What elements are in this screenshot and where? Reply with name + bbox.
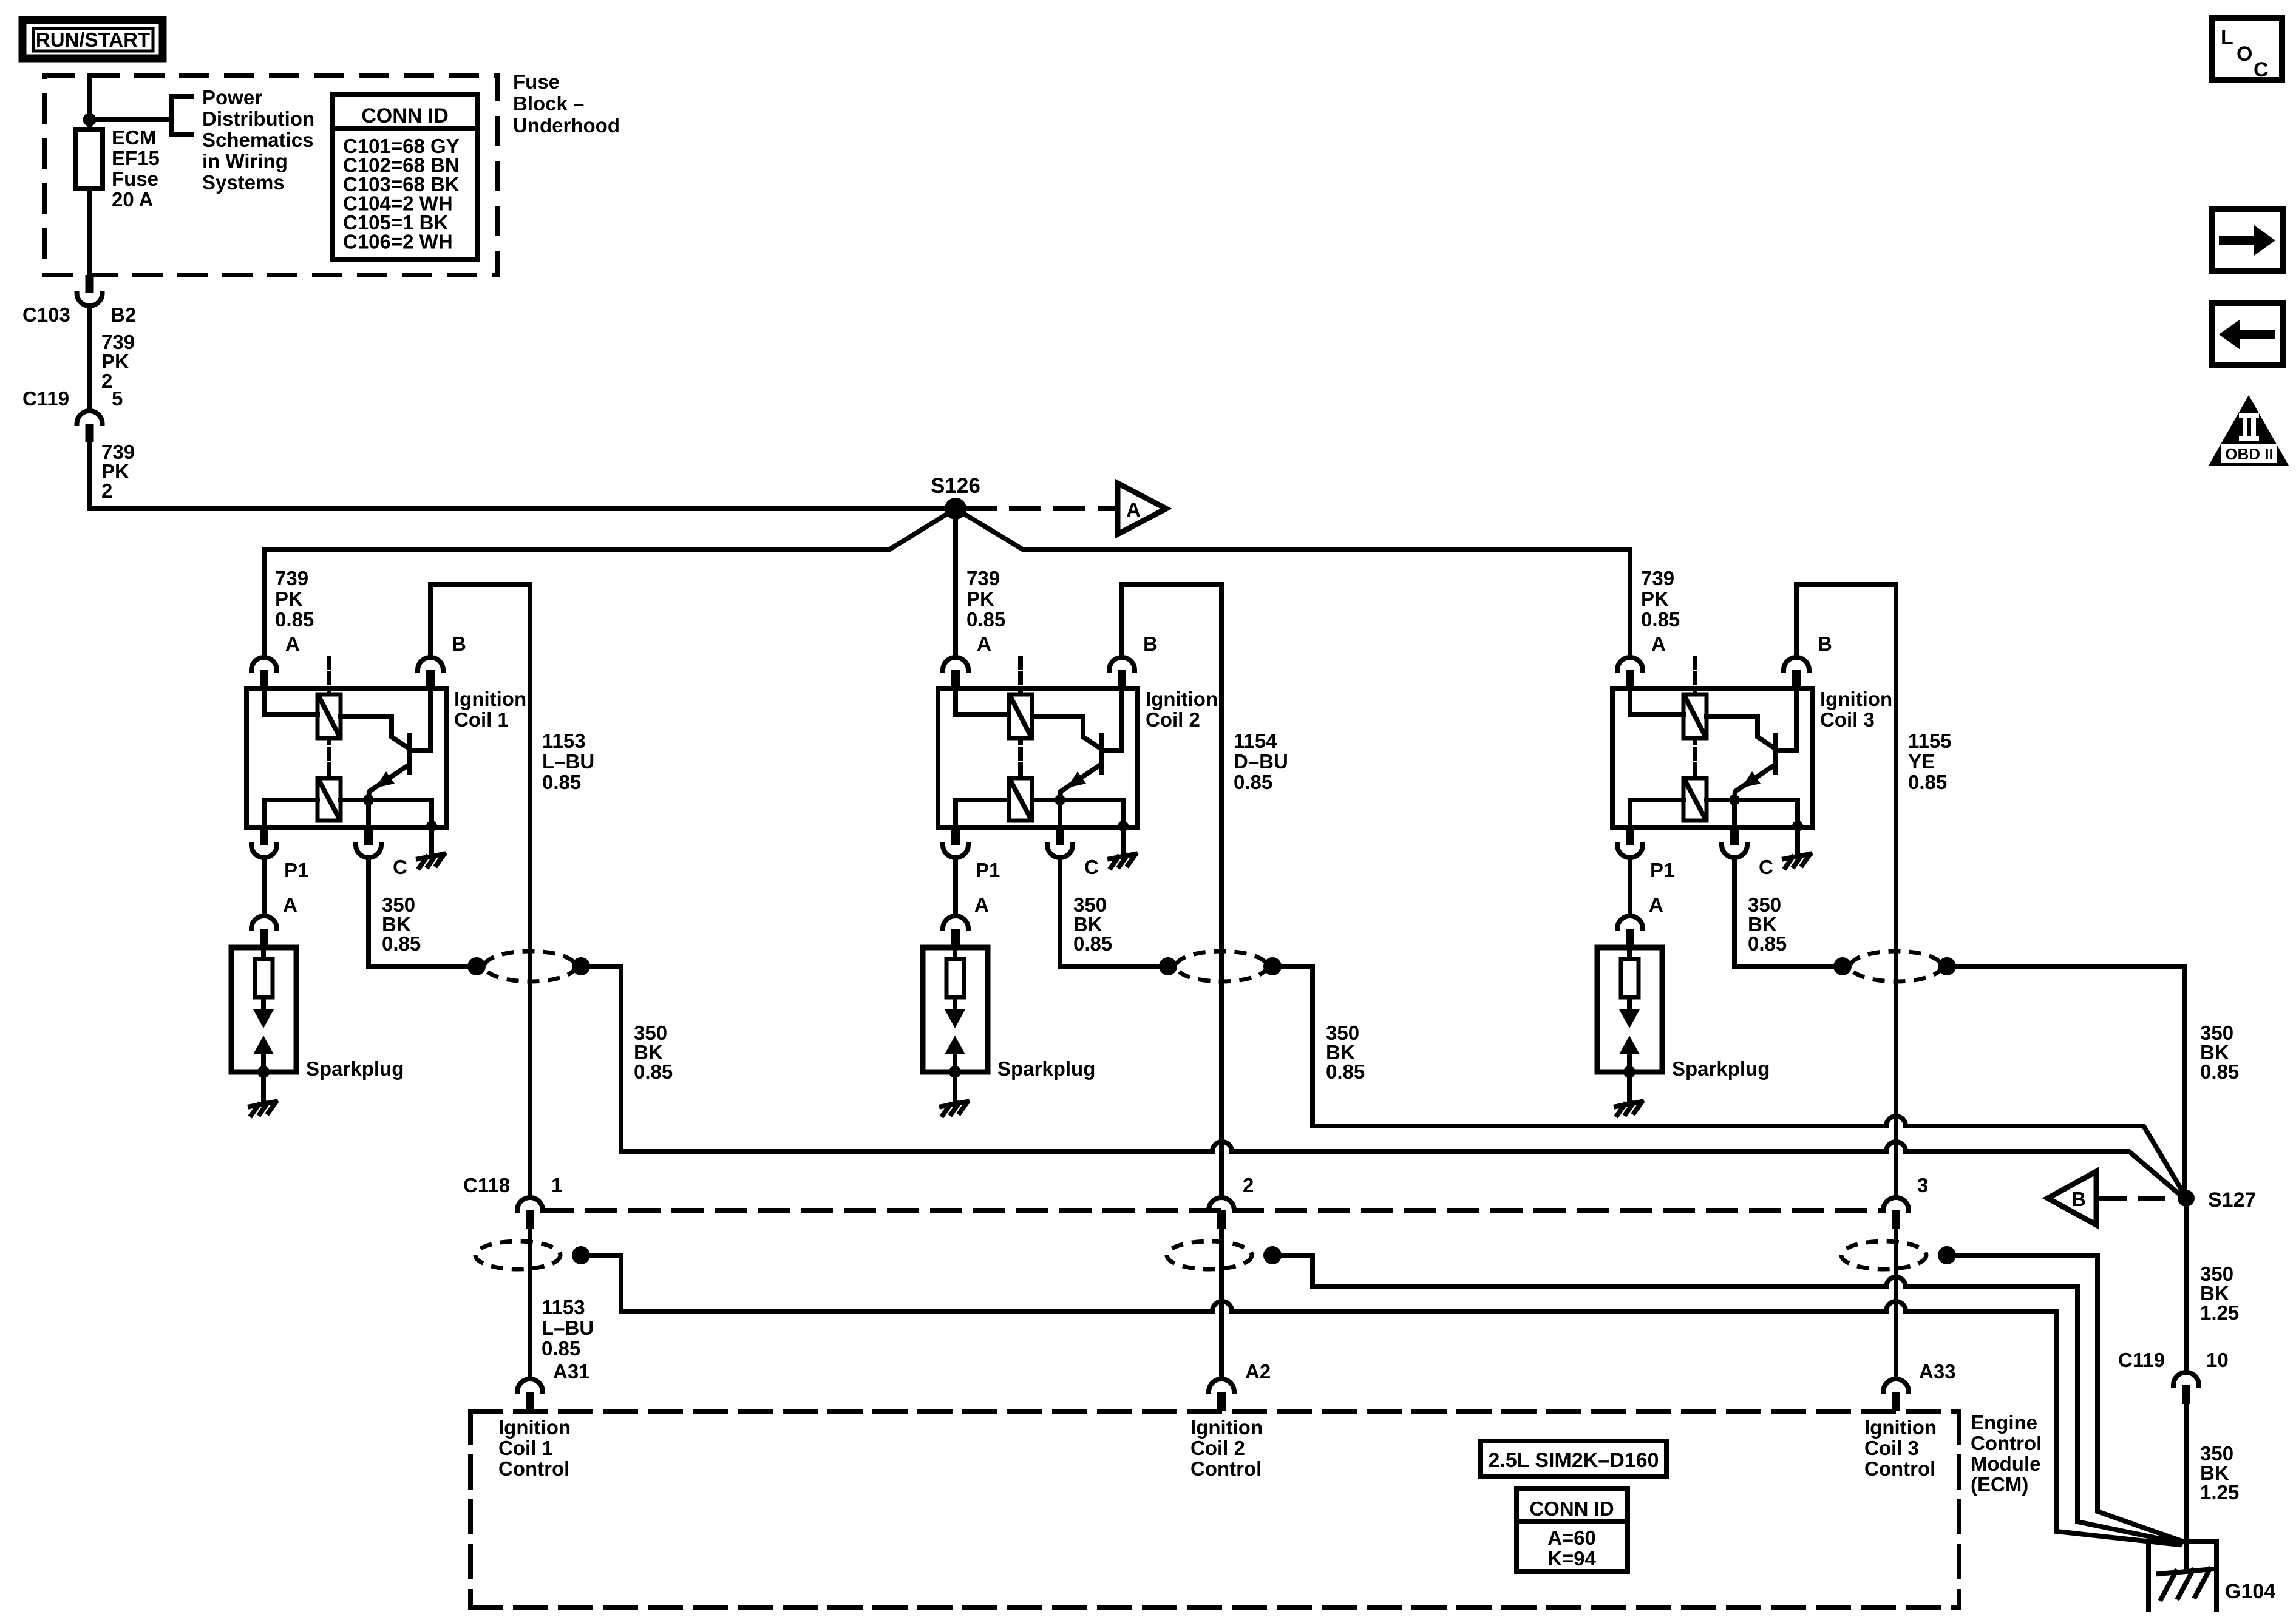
svg-text:Fuse: Fuse xyxy=(513,70,560,93)
svg-text:G104: G104 xyxy=(2225,1580,2275,1603)
svg-text:B: B xyxy=(1818,632,1832,655)
svg-text:CONN ID: CONN ID xyxy=(361,104,449,127)
svg-text:0.85: 0.85 xyxy=(382,932,421,955)
connector terminal P1 (coil 2) xyxy=(951,827,960,845)
svg-text:3: 3 xyxy=(1917,1174,1928,1196)
svg-text:B: B xyxy=(452,632,466,655)
control wire loop to terminal B (coil 1) xyxy=(430,585,530,1198)
svg-text:A: A xyxy=(1651,632,1666,655)
coil 3 internal wiring xyxy=(1630,688,1683,714)
svg-text:10: 10 xyxy=(2206,1349,2229,1371)
wire below C118 pin 1 xyxy=(528,1229,532,1379)
svg-text:PK: PK xyxy=(275,588,303,610)
node: emitter to secondary return (coil 3) xyxy=(1729,795,1740,805)
ground G104 frame xyxy=(2148,1541,2216,1609)
coil 3 primary winding xyxy=(1683,694,1707,738)
svg-text:Sparkplug: Sparkplug xyxy=(306,1057,404,1080)
shield drain node right (coil 3) xyxy=(1938,957,1956,975)
coil 2 case ground stub xyxy=(1121,828,1126,852)
svg-text:739: 739 xyxy=(275,567,308,589)
coil 2 internal wiring xyxy=(956,688,1009,714)
svg-text:PK: PK xyxy=(1641,588,1669,610)
wire 350 BK 1.25 S127 to C119 pin 10 xyxy=(2184,1207,2189,1372)
ECM connector terminal arc (pin 1) xyxy=(517,1379,543,1392)
node: coil 1 case ground junction xyxy=(426,821,437,832)
svg-text:0.85: 0.85 xyxy=(966,608,1005,631)
svg-text:D–BU: D–BU xyxy=(1234,750,1288,773)
off-page arrow A xyxy=(1118,483,1166,534)
svg-text:Control: Control xyxy=(498,1457,569,1480)
control wire loop to terminal B (coil 3) xyxy=(1796,585,1896,1198)
coil 1 primary winding xyxy=(318,694,341,738)
coil 2 core dashed line xyxy=(1018,659,1023,785)
svg-text:2: 2 xyxy=(101,370,112,392)
svg-text:A: A xyxy=(285,632,300,655)
svg-text:C: C xyxy=(1084,856,1099,878)
svg-text:B2: B2 xyxy=(110,303,136,326)
transistor Q (coil 3 driver) xyxy=(1773,735,1778,773)
svg-text:C118: C118 xyxy=(463,1174,510,1196)
wire 739 PK 2 (C119 to S126) xyxy=(90,442,956,509)
svg-text:Power: Power xyxy=(202,86,262,109)
svg-text:0.85: 0.85 xyxy=(542,771,581,793)
sparkplug (coil 2) xyxy=(923,947,988,1072)
svg-text:Coil 1: Coil 1 xyxy=(498,1437,553,1459)
ECM connector terminal arc (pin 3) xyxy=(1883,1379,1909,1392)
svg-text:S126: S126 xyxy=(931,474,980,498)
coil 2 primary winding xyxy=(1009,694,1032,738)
shield drain node left (coil 3) xyxy=(1833,957,1852,975)
svg-text:0.85: 0.85 xyxy=(2200,1060,2239,1083)
ignition coil 1 assembly xyxy=(231,550,594,1198)
svg-text:C106=2 WH: C106=2 WH xyxy=(343,231,453,253)
svg-text:O: O xyxy=(2237,42,2252,66)
svg-text:Control: Control xyxy=(1864,1457,1935,1480)
ground (sparkplug 1) xyxy=(250,1102,276,1107)
svg-text:RUN/START: RUN/START xyxy=(36,29,150,51)
coil 1 case ground stub xyxy=(429,828,434,852)
svg-text:739: 739 xyxy=(966,567,1000,589)
ignition coil 1 box xyxy=(246,688,446,828)
connector C119 pin 5 xyxy=(77,411,103,424)
wire P1 to sparkplug (coil 2) xyxy=(953,858,958,916)
shield drain node right (coil 1) xyxy=(572,957,590,975)
svg-text:Control: Control xyxy=(1190,1457,1262,1480)
shield drain wire coil1 upper to S127 xyxy=(581,966,1212,1151)
svg-text:Ignition: Ignition xyxy=(498,1416,571,1439)
shield drain wire coil1 lower to G104 xyxy=(581,1255,1212,1311)
svg-text:L–BU: L–BU xyxy=(542,750,594,773)
wire from RUN/START through fuse xyxy=(87,75,92,275)
svg-text:CONN ID: CONN ID xyxy=(1529,1497,1614,1520)
ground (sparkplug 3) xyxy=(1616,1102,1642,1107)
svg-text:P1: P1 xyxy=(976,859,1000,881)
wire 739 PK 0.85 drop (coil 2) xyxy=(953,550,958,657)
svg-text:739: 739 xyxy=(1641,567,1674,589)
CONN ID table (fuse block) xyxy=(332,94,478,259)
svg-text:S127: S127 xyxy=(2208,1188,2256,1212)
svg-text:Coil 3: Coil 3 xyxy=(1820,708,1875,731)
shielded cable symbol upper (coil 1) xyxy=(484,951,576,981)
wire 350 BK 0.85 from terminal C (coil 3) xyxy=(1734,858,1833,966)
svg-text:0.85: 0.85 xyxy=(275,608,314,631)
shield drain node lower (pin 3) xyxy=(1938,1246,1956,1264)
svg-text:A: A xyxy=(974,893,989,916)
svg-text:1153: 1153 xyxy=(542,730,586,752)
shield drain node left (coil 1) xyxy=(467,957,486,975)
shielded cable symbol lower (pin 3) xyxy=(1841,1241,1926,1269)
ignition coil 3 box xyxy=(1612,688,1812,828)
svg-text:Block –: Block – xyxy=(513,92,584,115)
svg-text:B: B xyxy=(1143,632,1158,655)
fuse block underhood dashed box xyxy=(44,75,498,275)
svg-text:Sparkplug: Sparkplug xyxy=(1672,1057,1770,1080)
svg-text:C119: C119 xyxy=(22,387,69,410)
svg-text:0.85: 0.85 xyxy=(1073,932,1112,955)
svg-text:Ignition: Ignition xyxy=(1864,1416,1937,1439)
reference bracket xyxy=(172,97,192,134)
junction node on feed wire xyxy=(83,113,97,126)
wire below C118 pin 3 xyxy=(1894,1229,1898,1379)
svg-text:Ignition: Ignition xyxy=(1146,688,1218,710)
svg-text:C119: C119 xyxy=(2118,1349,2165,1371)
svg-text:Ignition: Ignition xyxy=(1820,688,1892,710)
svg-text:L–BU: L–BU xyxy=(542,1317,594,1339)
coil 2 secondary winding xyxy=(1009,778,1032,821)
node: sparkplug shell (coil 3) xyxy=(1623,1066,1635,1078)
svg-text:Coil 1: Coil 1 xyxy=(454,708,509,731)
svg-text:0.85: 0.85 xyxy=(1326,1060,1365,1083)
shielded cable symbol lower (pin 2) xyxy=(1167,1241,1252,1269)
off-page arrow B xyxy=(2048,1171,2096,1225)
forward navigation arrow icon xyxy=(2212,209,2283,271)
connector C118 pin 1 xyxy=(517,1198,543,1210)
dashed off-page wire to arrow B xyxy=(2102,1196,2178,1201)
sparkplug ground stub (coil 1) xyxy=(261,1072,266,1100)
ECM part number box 2.5L SIM2K-D160 xyxy=(1481,1441,1666,1477)
shielded cable symbol upper (coil 2) xyxy=(1176,951,1267,981)
transistor Q (coil 2 driver) xyxy=(1099,735,1104,773)
LOC legend icon xyxy=(2212,18,2282,80)
shield drain node right (coil 2) xyxy=(1263,957,1282,975)
svg-text:Coil 3: Coil 3 xyxy=(1864,1437,1919,1459)
svg-text:1.25: 1.25 xyxy=(2200,1301,2239,1324)
ECM connector terminal arc (pin 2) xyxy=(1209,1379,1234,1392)
svg-text:2.5L SIM2K–D160: 2.5L SIM2K–D160 xyxy=(1489,1449,1659,1472)
sparkplug ground stub (coil 2) xyxy=(953,1072,957,1100)
coil 1 core dashed line xyxy=(327,659,331,785)
shield drain node lower (pin 2) xyxy=(1263,1246,1282,1264)
svg-text:in Wiring: in Wiring xyxy=(202,150,288,172)
sparkplug ground stub (coil 3) xyxy=(1627,1072,1632,1100)
connector terminal P1 (coil 3) xyxy=(1626,827,1634,845)
ECM CONN ID table xyxy=(1517,1489,1628,1571)
svg-text:PK: PK xyxy=(966,588,994,610)
svg-text:A31: A31 xyxy=(553,1360,590,1383)
svg-text:EF15: EF15 xyxy=(112,147,160,169)
svg-text:C103: C103 xyxy=(22,303,70,326)
svg-text:1154: 1154 xyxy=(1234,730,1277,752)
connector C118 pin 2 xyxy=(1209,1198,1234,1210)
svg-text:0.85: 0.85 xyxy=(634,1060,673,1083)
svg-text:Ignition: Ignition xyxy=(454,688,526,710)
svg-text:Coil 2: Coil 2 xyxy=(1190,1437,1245,1459)
splice S126 xyxy=(945,498,966,520)
node: coil 2 case ground junction xyxy=(1118,821,1129,832)
svg-text:1.25: 1.25 xyxy=(2200,1481,2239,1503)
ignition coil 3 assembly xyxy=(1597,550,1956,1198)
connector terminal A (coil 3) xyxy=(1617,657,1643,670)
node: coil 3 case ground junction xyxy=(1792,821,1803,832)
svg-text:P1: P1 xyxy=(284,859,308,881)
connector C119 pin 10 xyxy=(2173,1372,2199,1385)
sparkplug connector A (coil 2) xyxy=(943,916,968,929)
connector terminal A (coil 1) xyxy=(251,657,277,670)
svg-text:A: A xyxy=(1126,498,1141,521)
connector C103 pin B2 xyxy=(86,275,94,293)
shielded cable symbol upper (coil 3) xyxy=(1850,951,1941,981)
wire S126 branch to coil 3 xyxy=(956,509,1629,550)
shield drain wire coil3 lower to G104 xyxy=(1946,1255,2182,1541)
sparkplug connector A (coil 3) xyxy=(1617,916,1643,929)
svg-text:K=94: K=94 xyxy=(1547,1547,1596,1570)
svg-text:Coil 2: Coil 2 xyxy=(1146,708,1200,731)
connector C118 pin 3 xyxy=(1883,1198,1909,1210)
sparkplug connector A (coil 1) xyxy=(251,916,277,929)
fuse ECM EF15 20A xyxy=(76,129,103,189)
svg-text:0.85: 0.85 xyxy=(1234,771,1272,793)
shield drain node lower (pin 1) xyxy=(572,1246,590,1264)
shield drain wire coil3 upper to S127 xyxy=(1946,966,2184,1198)
svg-text:Fuse: Fuse xyxy=(112,168,158,190)
connector terminal B (coil 2) xyxy=(1109,657,1135,670)
coil 1 secondary winding xyxy=(318,778,341,821)
connector C118 dashed body line xyxy=(545,1208,1882,1213)
sparkplug (coil 1) xyxy=(231,947,296,1072)
svg-text:2: 2 xyxy=(1243,1174,1254,1196)
svg-text:1153: 1153 xyxy=(542,1296,585,1318)
connector terminal P1 (coil 1) xyxy=(260,827,268,845)
svg-text:Module: Module xyxy=(1971,1453,2040,1475)
svg-text:C: C xyxy=(1759,856,1773,878)
coil 3 secondary winding xyxy=(1683,778,1707,821)
svg-text:B: B xyxy=(2071,1188,2086,1210)
svg-text:1155: 1155 xyxy=(1908,730,1952,752)
wire to power distribution reference bracket xyxy=(90,117,172,122)
wire P1 to sparkplug (coil 3) xyxy=(1628,858,1632,916)
wire S126 branch to coil 1 xyxy=(264,509,956,550)
svg-text:Underhood: Underhood xyxy=(513,114,620,137)
backward navigation arrow icon xyxy=(2212,303,2283,365)
connector terminal C (coil 2) xyxy=(1056,827,1064,845)
svg-text:C: C xyxy=(2254,58,2269,81)
coil 3 case ground stub xyxy=(1795,828,1800,852)
svg-text:A33: A33 xyxy=(1919,1360,1956,1383)
svg-text:2: 2 xyxy=(101,480,112,502)
shielded cable symbol lower (pin 1) xyxy=(475,1241,560,1269)
svg-text:A=60: A=60 xyxy=(1547,1527,1596,1549)
svg-text:A: A xyxy=(1649,893,1663,916)
svg-text:20 A: 20 A xyxy=(112,188,153,211)
wire P1 to sparkplug (coil 1) xyxy=(262,858,267,916)
svg-text:C: C xyxy=(393,856,407,878)
ground (coil 3 case) xyxy=(1784,854,1810,859)
svg-text:L: L xyxy=(2221,26,2233,49)
engine control module dashed box xyxy=(470,1409,1959,1414)
svg-text:Schematics: Schematics xyxy=(202,129,313,151)
svg-text:ECM: ECM xyxy=(112,126,156,149)
connector terminal A (coil 2) xyxy=(943,657,968,670)
RUN/START power source box xyxy=(22,20,163,58)
node: emitter to secondary return (coil 1) xyxy=(363,795,374,805)
svg-text:Sparkplug: Sparkplug xyxy=(997,1057,1095,1080)
wire 350 BK 0.85 from terminal C (coil 2) xyxy=(1060,858,1159,966)
transistor Q (coil 1 driver) xyxy=(407,735,412,773)
splice S127 xyxy=(2178,1190,2195,1207)
OBD II icon xyxy=(2209,395,2289,466)
svg-text:Engine: Engine xyxy=(1971,1411,2037,1434)
svg-text:Ignition: Ignition xyxy=(1190,1416,1263,1439)
wire 350 BK 0.85 from terminal C (coil 1) xyxy=(369,858,467,966)
node: sparkplug shell (coil 2) xyxy=(949,1066,961,1078)
svg-text:A: A xyxy=(977,632,991,655)
svg-text:A: A xyxy=(283,893,297,916)
svg-text:OBD II: OBD II xyxy=(2225,445,2273,463)
ground (sparkplug 2) xyxy=(942,1102,967,1107)
svg-text:Systems: Systems xyxy=(202,171,285,194)
wire below C118 pin 2 xyxy=(1219,1229,1224,1379)
svg-text:Control: Control xyxy=(1971,1432,2042,1454)
svg-text:Distribution: Distribution xyxy=(202,107,314,130)
svg-text:YE: YE xyxy=(1908,750,1935,773)
ground (coil 1 case) xyxy=(418,854,444,859)
wire 739 PK 0.85 drop (coil 1) xyxy=(262,550,267,657)
svg-text:1: 1 xyxy=(551,1174,562,1196)
shield drain wire coil2 upper to S127 xyxy=(1272,966,1886,1126)
connector terminal B (coil 1) xyxy=(418,657,443,670)
sparkplug (coil 3) xyxy=(1597,947,1662,1072)
dashed off-page wire to arrow A xyxy=(967,506,1115,511)
svg-text:0.85: 0.85 xyxy=(1641,608,1680,631)
shield drain node left (coil 2) xyxy=(1159,957,1177,975)
svg-text:P1: P1 xyxy=(1650,859,1674,881)
ignition coil 2 assembly xyxy=(923,550,1288,1198)
wire 739 PK 2 (C103 to C119) xyxy=(87,306,92,411)
wire S126 branch to coil 2 xyxy=(953,509,958,657)
node: sparkplug shell (coil 1) xyxy=(257,1066,270,1078)
control wire loop to terminal B (coil 2) xyxy=(1122,585,1221,1198)
ground G104 hatch xyxy=(2159,1569,2213,1574)
connector terminal C (coil 3) xyxy=(1730,827,1739,845)
svg-text:0.85: 0.85 xyxy=(542,1337,580,1360)
connector terminal C (coil 1) xyxy=(364,827,373,845)
wire 350 BK 1.25 to G104 xyxy=(2184,1404,2189,1570)
svg-text:0.85: 0.85 xyxy=(1908,771,1947,793)
coil 1 internal wiring xyxy=(264,688,318,714)
connector terminal B (coil 3) xyxy=(1784,657,1809,670)
shield drain wire coil2 lower to G104 xyxy=(1272,1255,1886,1287)
svg-text:(ECM): (ECM) xyxy=(1971,1473,2028,1496)
coil 3 core dashed line xyxy=(1693,659,1697,785)
svg-text:A2: A2 xyxy=(1245,1360,1271,1383)
node: emitter to secondary return (coil 2) xyxy=(1055,795,1065,805)
svg-text:0.85: 0.85 xyxy=(1748,932,1787,955)
ignition coil 2 box xyxy=(938,688,1138,828)
ground (coil 2 case) xyxy=(1110,854,1135,859)
svg-text:5: 5 xyxy=(112,387,123,410)
wire 739 PK 0.85 drop (coil 3) xyxy=(1628,550,1632,657)
